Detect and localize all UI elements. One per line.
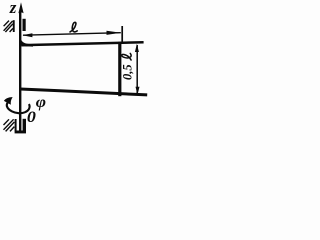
bottom bearing left wall — [15, 119, 17, 131]
rotation arrowhead — [4, 97, 13, 105]
dimension line 0.5l — [136, 45, 138, 94]
plate right edge — [118, 42, 121, 96]
axis z arrowhead — [18, 2, 23, 13]
label 0,5l rotated — [121, 53, 135, 80]
svg-text:φ: φ — [36, 93, 46, 111]
extension line top right — [121, 26, 123, 43]
top bearing hatching — [4, 21, 13, 32]
bottom bearing hatching — [4, 119, 15, 131]
bottom bearing right wall — [23, 119, 26, 133]
plate top edge — [22, 42, 144, 45]
dimension l left arrowhead — [22, 33, 32, 37]
label l (script ell) — [70, 22, 77, 32]
dimension l right arrowhead — [107, 31, 121, 35]
plate top-left fillet — [21, 40, 33, 47]
svg-text:z: z — [9, 0, 17, 17]
dimension 0.5l down arrowhead — [136, 87, 140, 95]
bottom bearing base — [15, 131, 26, 134]
top bearing left wall — [13, 20, 15, 32]
plate bottom edge — [20, 89, 147, 95]
svg-text:0,5: 0,5 — [121, 64, 135, 80]
rotation arrow phi (ellipse arc) — [7, 101, 30, 113]
dimension 0.5l up arrowhead — [135, 44, 139, 52]
top bearing right wall — [23, 19, 26, 31]
svg-text:0: 0 — [27, 108, 37, 126]
axis z (shaft) — [19, 12, 21, 134]
dimension line l — [23, 33, 121, 36]
